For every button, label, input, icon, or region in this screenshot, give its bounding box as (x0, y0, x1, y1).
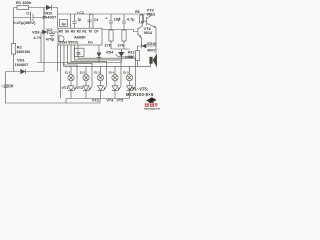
svg-text:S0: S0 (65, 29, 69, 33)
svg-text:27k: 27k (105, 44, 112, 48)
svg-text:R2: R2 (77, 29, 81, 33)
svg-text:VD10: VD10 (147, 42, 157, 46)
svg-text:1N4007: 1N4007 (42, 15, 57, 20)
svg-text:R1 300k: R1 300k (16, 0, 32, 5)
svg-text:R5: R5 (59, 29, 63, 33)
svg-text:~220V: ~220V (1, 84, 14, 89)
svg-text:470μ: 470μ (46, 38, 55, 42)
svg-text:EL4: EL4 (109, 71, 115, 75)
svg-text:A669F: A669F (74, 35, 86, 40)
svg-text:+: + (90, 12, 92, 16)
svg-text:R9: R9 (135, 10, 139, 14)
svg-text:510: 510 (128, 55, 134, 59)
svg-text:EL3: EL3 (94, 71, 100, 75)
svg-text:1N4007: 1N4007 (15, 62, 30, 67)
svg-text:C2: C2 (48, 28, 53, 32)
svg-text:EL5: EL5 (123, 71, 129, 75)
svg-text:VT1: VT1 (62, 86, 69, 90)
svg-text:+ C3: + C3 (77, 11, 84, 15)
svg-text:MCR100-8×6: MCR100-8×6 (126, 92, 154, 97)
svg-text:VT4: VT4 (107, 99, 114, 103)
svg-text:CP: CP (94, 29, 99, 33)
svg-text:C4: C4 (94, 18, 98, 22)
svg-text:9014: 9014 (144, 31, 153, 35)
svg-text:VD4: VD4 (106, 50, 114, 54)
svg-text:+: + (105, 16, 108, 20)
svg-text:VD3: VD3 (32, 29, 40, 34)
svg-text:4.7μ: 4.7μ (127, 17, 135, 21)
svg-text:Fs•: Fs• (88, 40, 94, 44)
svg-text:680/1W: 680/1W (17, 49, 31, 54)
svg-text:R1: R1 (82, 29, 86, 33)
svg-text:4.7V: 4.7V (33, 35, 41, 40)
svg-text:EL2: EL2 (80, 71, 86, 75)
svg-text:S1: S1 (76, 52, 80, 56)
svg-text:S1S4 S5VOL: S1S4 S5VOL (59, 40, 79, 44)
svg-text:1μ: 1μ (77, 18, 81, 22)
svg-text:0.47μ(400V): 0.47μ(400V) (13, 20, 36, 25)
svg-text:www.dgzj.com: www.dgzj.com (144, 109, 160, 110)
svg-text:1μ: 1μ (61, 21, 66, 26)
svg-text:VT3: VT3 (92, 99, 99, 103)
svg-text:R3: R3 (71, 29, 75, 33)
svg-text:T0: T0 (88, 29, 92, 33)
svg-text:C1: C1 (26, 11, 32, 16)
svg-text:27k: 27k (118, 44, 125, 48)
svg-text:VT2: VT2 (77, 86, 84, 90)
svg-text:10μ: 10μ (114, 17, 121, 21)
svg-text:4007: 4007 (147, 49, 155, 53)
svg-text:VT5: VT5 (117, 99, 124, 103)
svg-text:EL1: EL1 (65, 71, 71, 75)
